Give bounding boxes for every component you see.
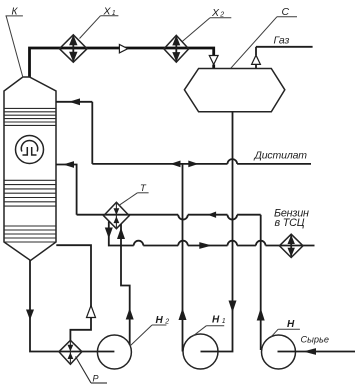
- pipe: reflux into column top: [56, 101, 92, 103]
- heat exchanger P (reboiler diamond): [59, 340, 82, 364]
- label H1 with leader: [193, 315, 226, 337]
- column internal circle symbol: [16, 136, 44, 164]
- label K with leader: [6, 6, 23, 77]
- column tray band 3: [4, 226, 56, 242]
- pipe: gas outlet from separator: [256, 47, 313, 69]
- svg-text:2: 2: [164, 319, 169, 326]
- svg-text:1: 1: [222, 318, 226, 325]
- arrow on separator bottoms (flow down): [229, 301, 237, 313]
- pipe: distillate header: [92, 159, 311, 164]
- pipe: riser of reflux line: [91, 102, 93, 164]
- open arrow on vapor return (flow up): [87, 306, 96, 318]
- label P with leader: [76, 357, 108, 384]
- svg-text:Дистилат: Дистилат: [254, 150, 308, 162]
- pipe: raw feed into pump H: [278, 351, 355, 353]
- arrow into T bottom (flow up): [117, 228, 125, 240]
- svg-text:Сырье: Сырье: [301, 335, 329, 345]
- arrow hot stream down: [105, 228, 113, 239]
- label C with leader: [231, 6, 297, 68]
- label H with leader: [271, 319, 300, 337]
- pipe: separator bottoms down to pump H1: [201, 112, 233, 352]
- pipe: hot stream out of T (start of line B): [108, 222, 110, 246]
- column K vessel outline: [4, 77, 56, 261]
- label T with leader: [119, 183, 149, 206]
- pipe: line B benzine to TSC: [109, 241, 315, 246]
- svg-text:Газ: Газ: [274, 34, 290, 46]
- arrow on line B (flow right): [199, 242, 212, 249]
- svg-text:Х: Х: [211, 7, 220, 19]
- heat exchanger X1 (air cooler diamond): [59, 35, 87, 62]
- open arrow into separator (flow down): [209, 56, 218, 65]
- pipe: pump H discharge riser: [260, 215, 262, 350]
- arrow on H2 discharge (flow up): [126, 308, 134, 320]
- pipe: reboiler vapor return to column: [56, 245, 91, 340]
- arrow on H discharge (flow up): [257, 308, 265, 321]
- open arrow on gas outlet (flow up): [252, 55, 261, 64]
- column tray band 2: [4, 180, 56, 206]
- column tray band 1: [4, 108, 56, 125]
- arrow reflux into column: [69, 98, 80, 105]
- pipe: pump H1 discharge riser: [182, 164, 184, 352]
- heat exchanger X2 (air cooler diamond): [164, 35, 189, 62]
- pump H: [262, 335, 296, 369]
- label X2 with leader: [183, 7, 232, 42]
- pipe: pump H2 discharge up to T: [121, 224, 130, 345]
- label X1 with leader: [80, 5, 119, 38]
- label H2 with leader: [130, 315, 169, 346]
- pipe: overhead vapor line from column top through X1 and X2 to separator: [30, 48, 214, 77]
- pipe: column bottoms to P: [30, 261, 82, 352]
- pump H2: [97, 335, 131, 369]
- arrow on H1 discharge (flow up): [179, 308, 187, 320]
- pump H1: [183, 334, 218, 369]
- pipe: P to pump H2 suction: [82, 351, 115, 353]
- pipe: feed line A from pump H riser to column: [56, 165, 261, 220]
- separator C (hexagonal vessel): [184, 69, 284, 112]
- arrow on bottoms line (flow down): [26, 310, 34, 321]
- arrow on line A (flow left): [208, 212, 217, 218]
- heat exchanger (benzine cooler diamond): [279, 234, 303, 257]
- svg-text:в ТСЦ: в ТСЦ: [275, 217, 305, 229]
- arrow distillate header left branch: [170, 161, 180, 168]
- arrow feed into pump H: [303, 348, 316, 355]
- label Benzine to TSC: [274, 207, 309, 228]
- arrow feed into column: [63, 161, 74, 168]
- svg-text:Н: Н: [156, 315, 164, 326]
- heat exchanger T (feed heater diamond): [104, 202, 130, 228]
- svg-text:Н: Н: [212, 315, 220, 326]
- svg-text:Р: Р: [93, 374, 99, 384]
- open arrow on overhead line (flow right): [119, 45, 127, 53]
- svg-text:Н: Н: [287, 319, 295, 330]
- arrow distillate header right branch: [188, 161, 198, 168]
